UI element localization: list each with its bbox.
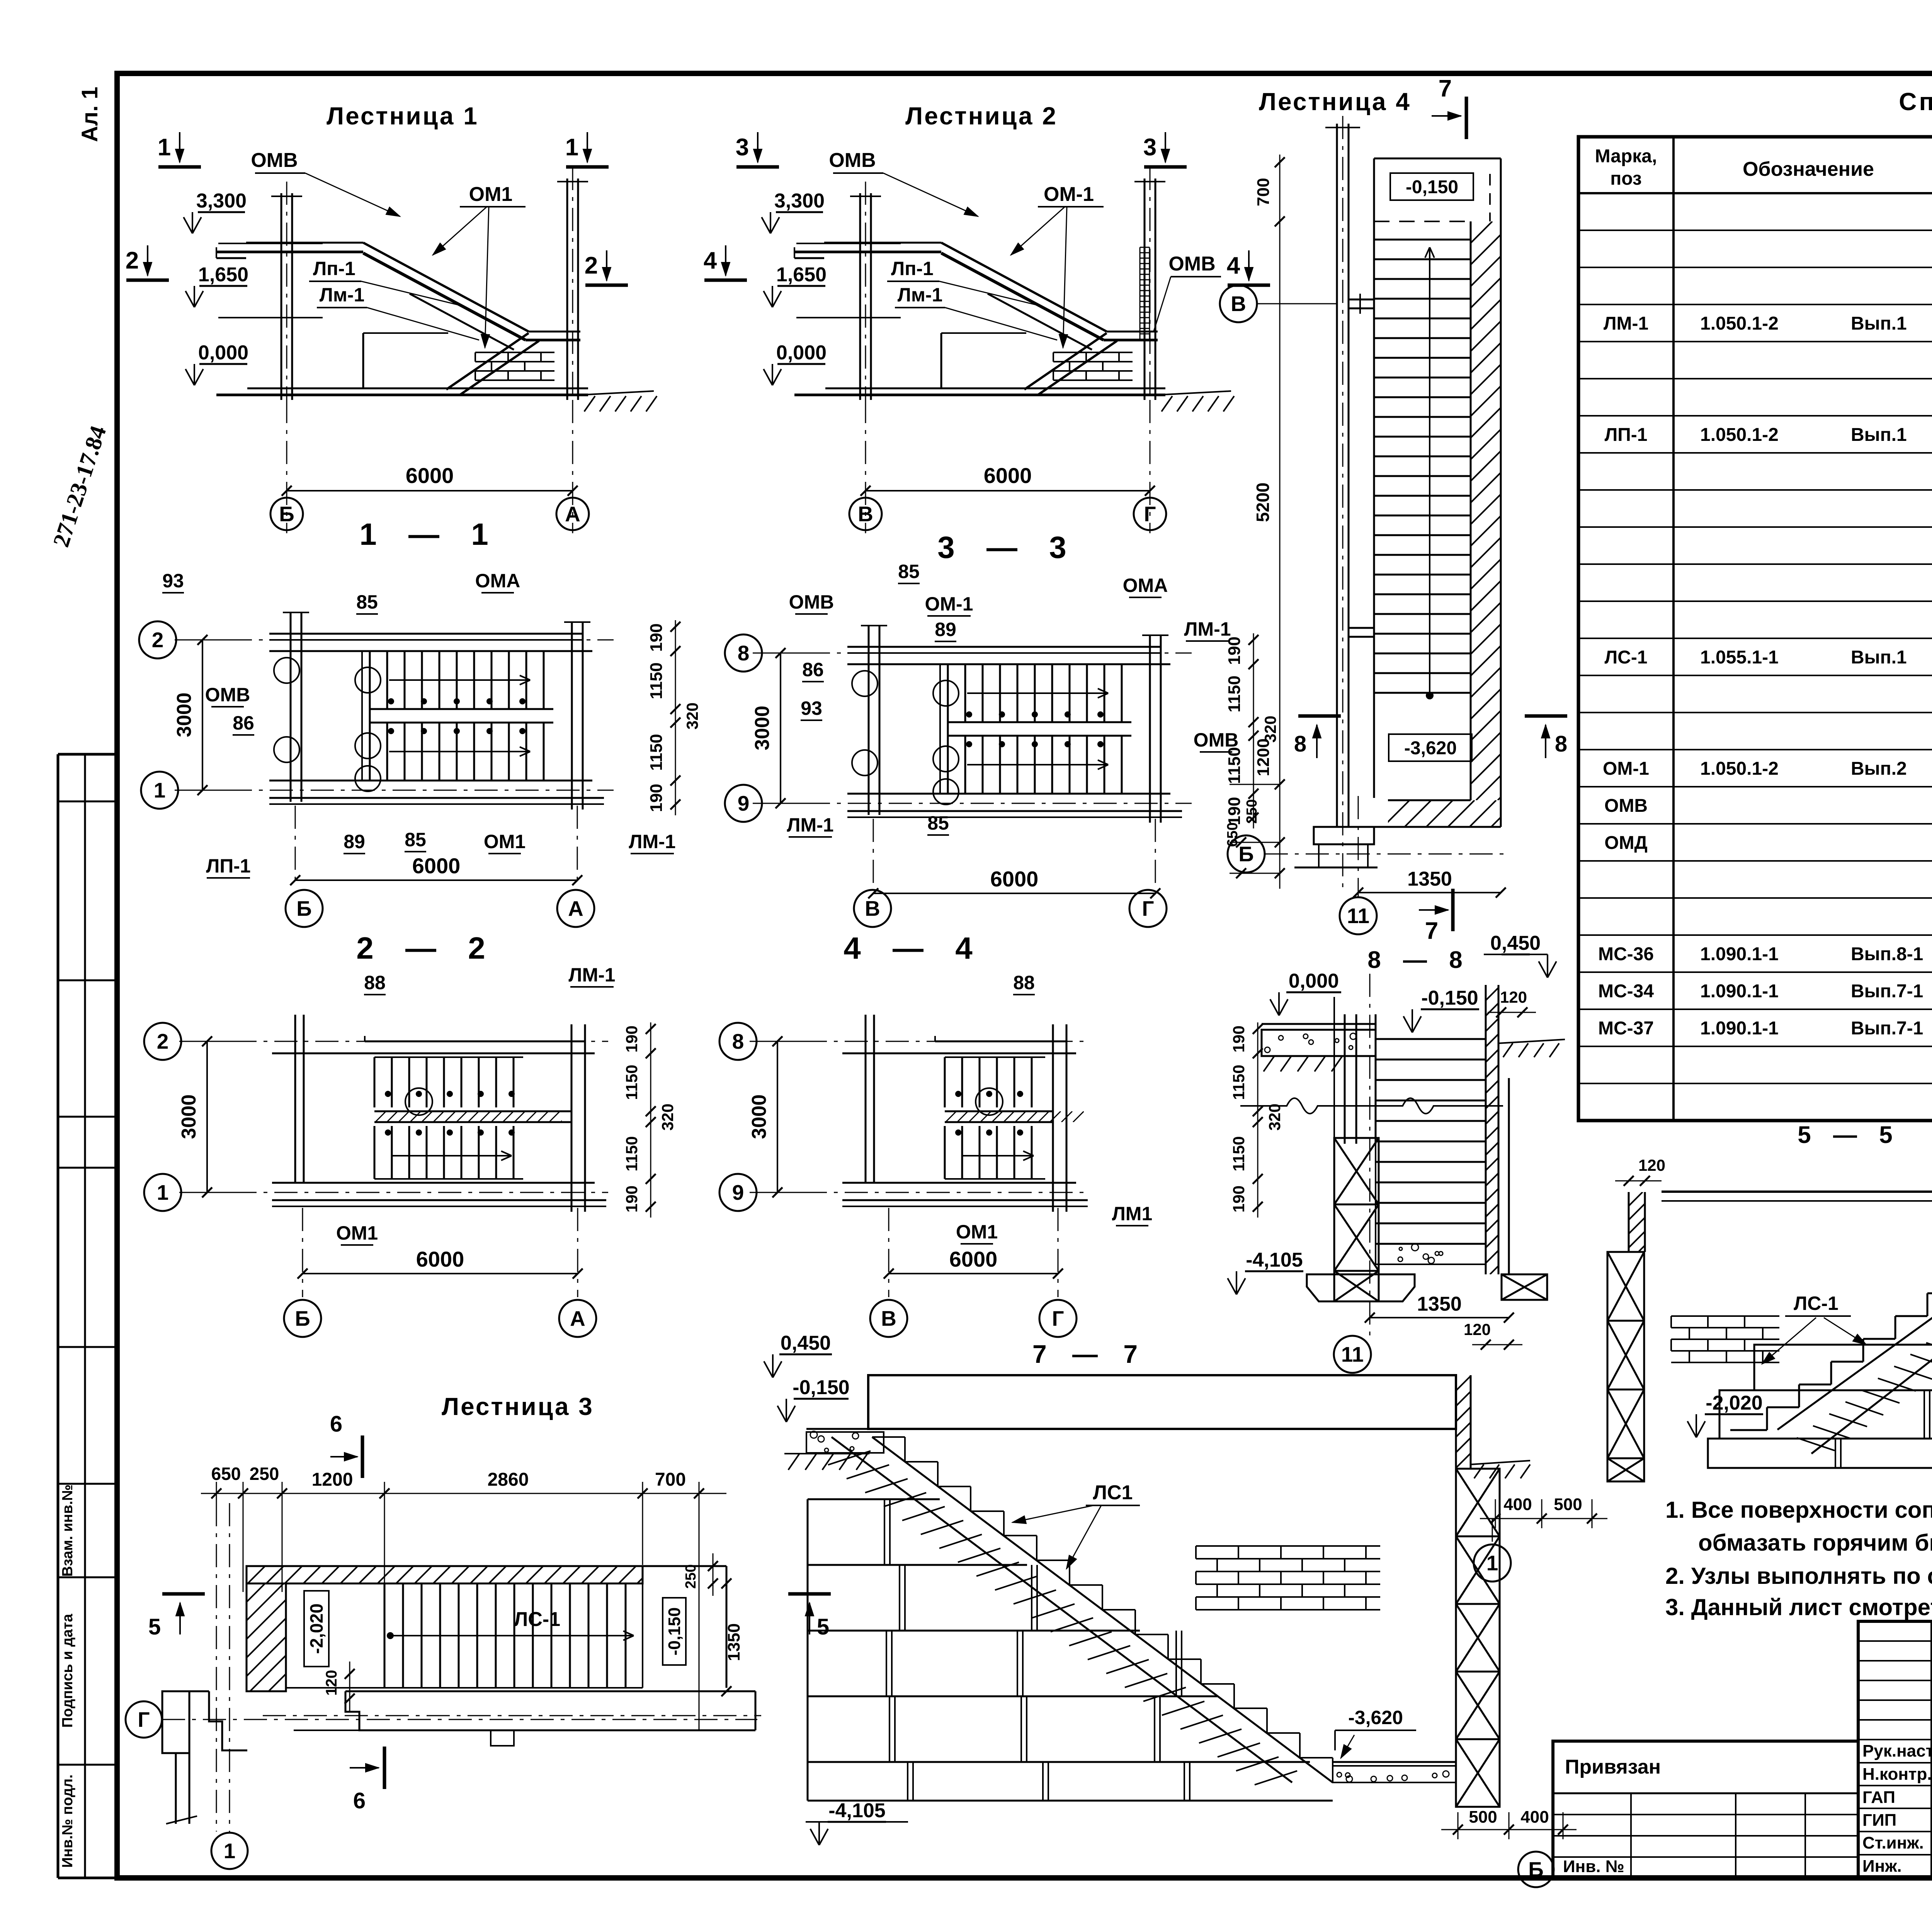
svg-text:ЛС1: ЛС1 bbox=[1093, 1481, 1133, 1504]
svg-text:Н.контр.: Н.контр. bbox=[1862, 1765, 1932, 1784]
svg-text:ОМВ: ОМВ bbox=[1194, 729, 1239, 751]
svg-text:3,300: 3,300 bbox=[774, 190, 825, 212]
svg-text:1.050.1-2: 1.050.1-2 bbox=[1700, 425, 1779, 445]
svg-text:8: 8 bbox=[1555, 731, 1567, 757]
svg-text:0,000: 0,000 bbox=[1289, 970, 1339, 992]
svg-text:1 — 1: 1 — 1 bbox=[359, 517, 500, 551]
svg-text:120: 120 bbox=[1638, 1156, 1665, 1174]
svg-text:2860: 2860 bbox=[488, 1469, 529, 1490]
svg-text:-3,620: -3,620 bbox=[1404, 738, 1457, 759]
svg-text:85: 85 bbox=[405, 829, 426, 850]
svg-text:Инж.: Инж. bbox=[1862, 1857, 1902, 1876]
svg-text:Марка,: Марка, bbox=[1595, 146, 1657, 167]
svg-text:МС-37: МС-37 bbox=[1598, 1018, 1654, 1039]
svg-text:Лестница 2: Лестница 2 bbox=[905, 102, 1058, 130]
svg-text:А: А bbox=[565, 502, 580, 526]
svg-text:1: 1 bbox=[157, 1180, 169, 1204]
svg-text:Вып.1: Вып.1 bbox=[1851, 647, 1907, 668]
svg-text:4: 4 bbox=[704, 247, 717, 274]
svg-text:3000: 3000 bbox=[751, 706, 774, 750]
svg-text:3000: 3000 bbox=[173, 692, 196, 737]
svg-text:ЛМ1: ЛМ1 bbox=[1112, 1203, 1153, 1225]
svg-text:0,450: 0,450 bbox=[781, 1332, 831, 1354]
svg-text:ОМ-1: ОМ-1 bbox=[1603, 759, 1649, 779]
svg-text:3000: 3000 bbox=[178, 1094, 200, 1139]
svg-text:1.090.1-1: 1.090.1-1 bbox=[1700, 944, 1779, 964]
svg-text:1150: 1150 bbox=[1230, 1136, 1248, 1171]
svg-text:В: В bbox=[858, 502, 873, 526]
svg-text:6000: 6000 bbox=[990, 867, 1039, 891]
svg-text:120: 120 bbox=[1500, 988, 1527, 1006]
svg-text:1.050.1-2: 1.050.1-2 bbox=[1700, 313, 1779, 334]
svg-text:1. Все поверхности соприкасающ: 1. Все поверхности соприкасающиеся с гру… bbox=[1665, 1497, 1932, 1523]
svg-text:ОМВ: ОМВ bbox=[205, 684, 250, 706]
svg-text:Г: Г bbox=[138, 1708, 150, 1731]
svg-text:700: 700 bbox=[1254, 178, 1273, 206]
svg-text:3: 3 bbox=[736, 134, 749, 161]
svg-text:Лм-1: Лм-1 bbox=[320, 284, 365, 306]
svg-text:3: 3 bbox=[1143, 134, 1156, 161]
svg-text:1350: 1350 bbox=[1417, 1293, 1462, 1315]
svg-text:ГАП: ГАП bbox=[1862, 1788, 1895, 1807]
svg-text:190: 190 bbox=[622, 1185, 641, 1213]
svg-text:1: 1 bbox=[565, 134, 578, 161]
svg-text:1: 1 bbox=[154, 778, 166, 802]
svg-text:ЛС-1: ЛС-1 bbox=[1794, 1293, 1838, 1314]
svg-text:320: 320 bbox=[658, 1104, 677, 1131]
svg-text:обмазать горячим битумом за 2: обмазать горячим битумом за 2 раза. bbox=[1698, 1530, 1932, 1556]
svg-text:4 — 4: 4 — 4 bbox=[844, 931, 984, 965]
svg-text:8: 8 bbox=[1294, 731, 1306, 757]
svg-text:ЛМ-1: ЛМ-1 bbox=[1184, 618, 1231, 640]
svg-text:-2,020: -2,020 bbox=[1706, 1392, 1762, 1414]
svg-text:ЛП-1: ЛП-1 bbox=[1605, 425, 1648, 445]
svg-text:Спецификация элементов лестн: Спецификация элементов лестниц bbox=[1899, 88, 1932, 116]
svg-text:Ал. 1: Ал. 1 bbox=[77, 87, 102, 142]
svg-text:1,650: 1,650 bbox=[198, 264, 248, 286]
svg-text:ЛМ-1: ЛМ-1 bbox=[629, 831, 675, 852]
svg-text:11: 11 bbox=[1347, 904, 1369, 928]
svg-text:Взам. инв.№: Взам. инв.№ bbox=[60, 1485, 76, 1577]
svg-text:Вып.7-1: Вып.7-1 bbox=[1851, 981, 1923, 1002]
svg-text:89: 89 bbox=[344, 831, 365, 852]
svg-text:В: В bbox=[881, 1306, 896, 1330]
svg-text:Вып.7-1: Вып.7-1 bbox=[1851, 1018, 1923, 1039]
svg-text:1150: 1150 bbox=[647, 662, 666, 699]
svg-text:6000: 6000 bbox=[984, 463, 1032, 488]
svg-text:120: 120 bbox=[323, 1670, 340, 1696]
svg-text:Привязан: Привязан bbox=[1565, 1756, 1661, 1778]
svg-text:8: 8 bbox=[732, 1029, 744, 1053]
svg-text:ОМ1: ОМ1 bbox=[469, 183, 513, 206]
svg-text:ОМА: ОМА bbox=[1123, 575, 1168, 596]
svg-text:5200: 5200 bbox=[1253, 483, 1273, 522]
svg-text:0,000: 0,000 bbox=[198, 342, 248, 364]
svg-text:ГИП: ГИП bbox=[1862, 1811, 1896, 1830]
svg-text:1.055.1-1: 1.055.1-1 bbox=[1700, 647, 1779, 668]
svg-text:Обозначение: Обозначение bbox=[1743, 158, 1874, 180]
svg-text:190: 190 bbox=[1230, 1026, 1248, 1053]
svg-text:88: 88 bbox=[1013, 972, 1035, 993]
svg-text:ОМВ: ОМВ bbox=[251, 149, 298, 172]
svg-text:А: А bbox=[570, 1306, 585, 1330]
svg-text:1150: 1150 bbox=[647, 734, 666, 770]
svg-text:ОМ1: ОМ1 bbox=[336, 1222, 378, 1244]
svg-text:Г: Г bbox=[1142, 896, 1154, 920]
svg-text:ОМ1: ОМ1 bbox=[956, 1221, 998, 1243]
svg-text:Лп-1: Лп-1 bbox=[313, 258, 355, 279]
svg-text:3,300: 3,300 bbox=[196, 190, 247, 212]
svg-text:9: 9 bbox=[738, 791, 750, 815]
svg-text:Лп-1: Лп-1 bbox=[891, 258, 934, 279]
svg-text:Лестница 1: Лестница 1 bbox=[327, 102, 479, 130]
svg-text:ОМД: ОМД bbox=[1604, 833, 1648, 853]
svg-text:ОМ-1: ОМ-1 bbox=[1044, 183, 1094, 206]
svg-text:93: 93 bbox=[162, 570, 184, 592]
svg-text:1200: 1200 bbox=[1254, 738, 1273, 776]
svg-text:ЛМ-1: ЛМ-1 bbox=[568, 964, 615, 986]
svg-text:3. Данный лист смотреть с лис: 3. Данный лист смотреть с листами 5,6. bbox=[1665, 1594, 1932, 1620]
svg-text:МС-36: МС-36 bbox=[1598, 944, 1654, 964]
svg-text:400: 400 bbox=[1520, 1808, 1549, 1827]
svg-text:1.050.1-2: 1.050.1-2 bbox=[1700, 759, 1779, 779]
svg-text:85: 85 bbox=[356, 591, 378, 613]
svg-text:250: 250 bbox=[1244, 799, 1260, 823]
svg-text:ОМА: ОМА bbox=[475, 570, 520, 592]
svg-text:500: 500 bbox=[1554, 1495, 1582, 1514]
svg-text:-2,020: -2,020 bbox=[306, 1604, 327, 1654]
svg-text:6: 6 bbox=[353, 1788, 366, 1813]
svg-text:3 — 3: 3 — 3 bbox=[937, 530, 1078, 565]
svg-text:7: 7 bbox=[1425, 918, 1438, 944]
svg-text:1: 1 bbox=[224, 1839, 236, 1863]
svg-text:2: 2 bbox=[126, 247, 139, 274]
svg-text:ЛС-1: ЛС-1 bbox=[1604, 647, 1647, 668]
svg-text:Б: Б bbox=[295, 1306, 310, 1330]
svg-text:9: 9 bbox=[732, 1180, 744, 1204]
svg-text:7: 7 bbox=[1439, 75, 1452, 102]
svg-text:6: 6 bbox=[330, 1412, 342, 1437]
svg-text:320: 320 bbox=[1265, 1104, 1284, 1131]
svg-text:1,650: 1,650 bbox=[776, 264, 827, 286]
svg-text:ОМ-1: ОМ-1 bbox=[925, 593, 973, 615]
svg-text:2 — 2: 2 — 2 bbox=[356, 931, 497, 965]
svg-text:6000: 6000 bbox=[949, 1247, 998, 1271]
svg-text:ЛМ-1: ЛМ-1 bbox=[787, 814, 833, 836]
svg-text:8: 8 bbox=[738, 641, 750, 665]
svg-text:0,000: 0,000 bbox=[776, 342, 827, 364]
svg-text:-4,105: -4,105 bbox=[828, 1799, 885, 1822]
svg-text:Рук.наст.: Рук.наст. bbox=[1862, 1742, 1932, 1760]
svg-text:-0,150: -0,150 bbox=[1421, 987, 1478, 1009]
svg-text:190: 190 bbox=[1225, 797, 1244, 825]
svg-text:6000: 6000 bbox=[412, 854, 461, 878]
svg-text:6000: 6000 bbox=[416, 1247, 464, 1271]
svg-text:86: 86 bbox=[233, 712, 254, 734]
svg-text:11: 11 bbox=[1341, 1342, 1364, 1366]
svg-text:1350: 1350 bbox=[1407, 868, 1452, 890]
svg-text:ОМВ: ОМВ bbox=[829, 149, 876, 172]
svg-text:В: В bbox=[865, 896, 880, 920]
svg-text:Б: Б bbox=[1528, 1857, 1544, 1881]
svg-text:ЛП-1: ЛП-1 bbox=[206, 855, 250, 877]
svg-text:Вып.8-1: Вып.8-1 bbox=[1851, 944, 1923, 964]
svg-text:-3,620: -3,620 bbox=[1348, 1707, 1403, 1728]
svg-text:1150: 1150 bbox=[622, 1065, 641, 1100]
svg-text:ОМВ: ОМВ bbox=[1604, 796, 1648, 816]
svg-text:-0,150: -0,150 bbox=[665, 1607, 684, 1656]
svg-text:Подпись и дата: Подпись и дата bbox=[60, 1614, 76, 1728]
svg-text:3000: 3000 bbox=[748, 1094, 770, 1139]
svg-text:Б: Б bbox=[296, 896, 312, 920]
svg-text:1: 1 bbox=[158, 134, 171, 161]
svg-text:Лм-1: Лм-1 bbox=[898, 284, 943, 306]
svg-text:1.090.1-1: 1.090.1-1 bbox=[1700, 981, 1779, 1002]
svg-text:Г: Г bbox=[1144, 502, 1156, 526]
svg-text:250: 250 bbox=[250, 1464, 279, 1484]
svg-text:2: 2 bbox=[152, 628, 164, 652]
svg-text:190: 190 bbox=[622, 1026, 641, 1053]
svg-text:320: 320 bbox=[683, 702, 701, 730]
svg-text:8 — 8: 8 — 8 bbox=[1367, 947, 1470, 973]
svg-text:500: 500 bbox=[1469, 1808, 1497, 1827]
svg-text:7 — 7: 7 — 7 bbox=[1032, 1340, 1147, 1368]
svg-text:ЛС-1: ЛС-1 bbox=[514, 1608, 560, 1631]
svg-text:190: 190 bbox=[647, 623, 666, 651]
svg-text:86: 86 bbox=[802, 659, 824, 680]
svg-text:Ст.инж.: Ст.инж. bbox=[1862, 1833, 1924, 1852]
svg-text:ОМВ: ОМВ bbox=[789, 591, 834, 613]
svg-text:Лестница 3: Лестница 3 bbox=[442, 1393, 594, 1420]
svg-text:190: 190 bbox=[647, 784, 666, 812]
svg-text:1.090.1-1: 1.090.1-1 bbox=[1700, 1018, 1779, 1039]
svg-text:85: 85 bbox=[898, 561, 920, 582]
svg-text:0,450: 0,450 bbox=[1490, 932, 1541, 954]
svg-text:1150: 1150 bbox=[1225, 675, 1244, 712]
svg-text:2: 2 bbox=[585, 252, 598, 279]
svg-text:6000: 6000 bbox=[406, 463, 454, 488]
svg-text:2. Узлы выполнять по серии 1.0: 2. Узлы выполнять по серии 1.090.1-1 Вып… bbox=[1665, 1563, 1932, 1589]
svg-text:5: 5 bbox=[148, 1614, 161, 1639]
svg-text:-0,150: -0,150 bbox=[793, 1376, 849, 1399]
svg-text:1350: 1350 bbox=[724, 1623, 743, 1661]
svg-text:5 — 5: 5 — 5 bbox=[1798, 1122, 1900, 1148]
svg-text:1150: 1150 bbox=[1230, 1065, 1248, 1100]
svg-text:А: А bbox=[568, 896, 583, 920]
svg-text:Вып.1: Вып.1 bbox=[1851, 425, 1907, 445]
svg-text:Лестница 4: Лестница 4 bbox=[1259, 88, 1411, 116]
svg-text:700: 700 bbox=[655, 1469, 686, 1490]
svg-text:Инв.№ подл.: Инв.№ подл. bbox=[60, 1774, 76, 1868]
svg-text:Б: Б bbox=[1238, 842, 1254, 866]
svg-text:ОМ1: ОМ1 bbox=[484, 831, 526, 852]
svg-text:250: 250 bbox=[683, 1564, 699, 1588]
svg-text:650: 650 bbox=[211, 1464, 241, 1484]
svg-text:93: 93 bbox=[801, 697, 822, 719]
svg-text:190: 190 bbox=[1230, 1185, 1248, 1213]
svg-text:Б: Б bbox=[279, 502, 294, 526]
svg-text:1150: 1150 bbox=[622, 1136, 641, 1171]
svg-text:Вып.2: Вып.2 bbox=[1851, 759, 1907, 779]
svg-text:120: 120 bbox=[1464, 1320, 1491, 1338]
svg-text:88: 88 bbox=[364, 972, 386, 993]
svg-text:1200: 1200 bbox=[312, 1469, 353, 1490]
svg-text:1: 1 bbox=[1486, 1551, 1498, 1575]
svg-text:ЛМ-1: ЛМ-1 bbox=[1604, 313, 1648, 334]
svg-text:ОМВ: ОМВ bbox=[1168, 253, 1215, 275]
svg-text:89: 89 bbox=[935, 619, 956, 640]
svg-text:МС-34: МС-34 bbox=[1598, 981, 1654, 1002]
svg-text:Вып.1: Вып.1 bbox=[1851, 313, 1907, 334]
svg-text:Инв. №: Инв. № bbox=[1563, 1857, 1624, 1876]
svg-text:85: 85 bbox=[927, 812, 949, 834]
svg-text:-4,105: -4,105 bbox=[1246, 1249, 1303, 1271]
svg-text:2: 2 bbox=[157, 1029, 169, 1053]
svg-text:поз: поз bbox=[1610, 168, 1642, 189]
svg-text:400: 400 bbox=[1503, 1495, 1532, 1514]
svg-text:В: В bbox=[1231, 292, 1246, 316]
svg-text:Г: Г bbox=[1052, 1306, 1064, 1330]
svg-text:-0,150: -0,150 bbox=[1406, 177, 1458, 197]
svg-text:5: 5 bbox=[817, 1614, 829, 1639]
svg-text:4: 4 bbox=[1227, 252, 1240, 279]
